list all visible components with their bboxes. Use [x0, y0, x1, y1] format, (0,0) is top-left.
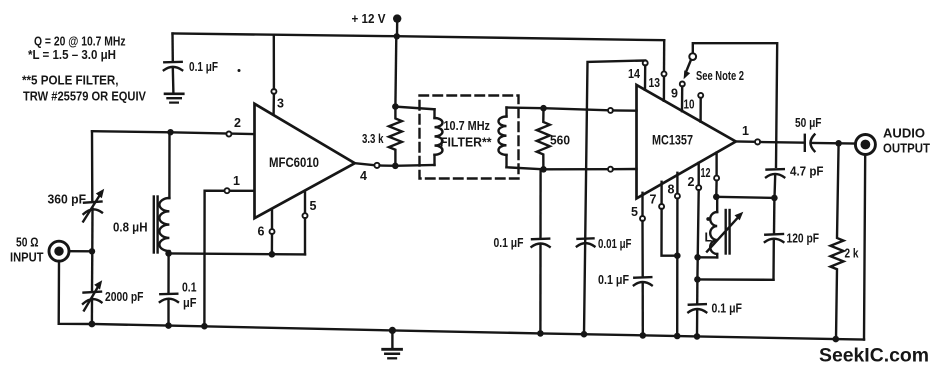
junction 2000pF/ground rail	[89, 321, 96, 328]
svg-text:0.1 μF: 0.1 μF	[712, 302, 743, 316]
wire input to junction	[69, 250, 92, 253]
inductor L variable	[710, 197, 717, 258]
label 0.8uH	[113, 221, 148, 235]
pin 7 stub MC1357	[659, 182, 677, 256]
label 50 ohm INPUT	[10, 236, 44, 265]
capacitor C 0.1uF decoupling (left)	[164, 34, 182, 94]
svg-text:0.1: 0.1	[182, 281, 197, 295]
svg-text:FILTER**: FILTER**	[440, 136, 492, 150]
svg-text:2 k: 2 k	[845, 247, 859, 261]
svg-text:INPUT: INPUT	[10, 251, 44, 265]
capacitor 0.01uF (pin14 net)	[577, 238, 595, 246]
pin number 3 MFC6010	[277, 97, 284, 111]
note Q/L values	[28, 34, 126, 63]
label 4.7pF	[790, 165, 824, 179]
label MC1357	[652, 133, 693, 148]
label 0.1uF pin5	[598, 273, 629, 287]
svg-text:8: 8	[668, 183, 675, 197]
svg-text:MFC6010: MFC6010	[269, 155, 319, 170]
label 0.01uF	[598, 237, 632, 251]
speck	[238, 69, 241, 72]
pin number 6 MFC6010	[258, 225, 265, 239]
svg-text:3: 3	[277, 97, 284, 111]
inductor 0.8uH	[159, 132, 169, 253]
svg-text:+ 12 V: + 12 V	[352, 12, 387, 26]
svg-text:1: 1	[233, 174, 240, 188]
pin 1 circle MFC6010	[225, 188, 230, 193]
pin 2 stub MC1357	[696, 163, 701, 280]
pin number 12 MC1357	[701, 166, 711, 180]
capacitor 0.1uF (pin2 net)	[688, 279, 706, 336]
svg-text:SeekIC.com: SeekIC.com	[819, 345, 929, 367]
junction pin12/tank top	[713, 194, 720, 201]
junction 0.01uF/ground rail	[581, 331, 588, 338]
junction pin7/pin8	[674, 252, 681, 259]
svg-text:4: 4	[360, 169, 367, 183]
junction 0.1uF/ground rail	[165, 322, 172, 329]
pin 5 stub MFC6010	[303, 193, 308, 255]
svg-text:*L = 1.5 – 3.0 μH: *L = 1.5 – 3.0 μH	[28, 47, 116, 62]
wire pin14 loop	[584, 61, 645, 335]
pin 4 circle MFC6010	[374, 163, 395, 168]
svg-text:560: 560	[550, 134, 570, 148]
wire pin4 net to filter coil bottom	[395, 164, 434, 167]
node input top wire (pin2 net)	[92, 131, 252, 134]
junction 560 bottom	[540, 166, 547, 173]
junction 2k/ground rail	[833, 336, 840, 343]
svg-text:0.1 μF: 0.1 μF	[494, 236, 524, 250]
inductor filter left winding	[435, 109, 443, 165]
pin number 2 MFC6010	[234, 116, 241, 130]
label 0.1uF mid	[494, 236, 524, 250]
capacitor 0.1uF (pin5)	[634, 277, 652, 335]
ground symbol (left decoupling)	[165, 94, 183, 103]
pin number 2 MC1357	[688, 175, 695, 189]
input connector 50 ohm	[49, 241, 69, 261]
svg-text:0.8 μH: 0.8 μH	[113, 221, 148, 235]
arrow see note 2	[684, 61, 691, 80]
wire tank top rail	[716, 197, 774, 198]
junction +12V rail/stub	[394, 33, 400, 39]
capacitor 0.1uF (mid, 560 net)	[532, 169, 550, 333]
watermark SeekIC.com	[819, 345, 929, 367]
ground symbol (bottom center)	[383, 327, 402, 359]
svg-text:3.3 k: 3.3 k	[362, 132, 384, 146]
wire pin1 loop	[204, 191, 252, 326]
wire filter bottom to 560/pin6	[507, 167, 609, 169]
junction pin2 cap/ground rail	[694, 333, 701, 340]
+12V terminal dot	[393, 14, 401, 36]
svg-text:1: 1	[742, 124, 749, 138]
junction 2k top	[835, 140, 842, 147]
pin 9 circle MC1357	[680, 82, 685, 112]
filter dashed box	[420, 96, 519, 179]
pin number 1 MC1357	[742, 124, 749, 138]
label 0.1uF input side	[182, 281, 197, 311]
wire input shield down	[59, 261, 92, 324]
svg-text:360 pF: 360 pF	[48, 193, 87, 207]
svg-text:TRW #25579 OR EQUIV: TRW #25579 OR EQUIV	[23, 89, 146, 104]
resistor 3.3k	[389, 107, 402, 166]
svg-text:14: 14	[628, 67, 640, 81]
svg-text:5: 5	[310, 199, 317, 213]
inductor filter right winding	[499, 108, 507, 168]
op-amp U1 MFC6010	[255, 104, 355, 218]
junction L bottom/pin2	[694, 254, 701, 261]
junction 3.3k bottom / pin4 net	[392, 163, 399, 170]
svg-text:2000 pF: 2000 pF	[105, 290, 144, 304]
svg-text:4.7 pF: 4.7 pF	[790, 165, 824, 179]
arrow 2000pF	[84, 280, 102, 310]
capacitor 0.1uF (input side)	[160, 253, 178, 325]
label 0.1uF pin2	[712, 302, 743, 316]
wire L bottom to pin2 line	[698, 256, 718, 259]
capacitor 2000pF variable	[83, 251, 102, 324]
svg-text:13: 13	[649, 76, 661, 90]
wire +12V rail to pin 13	[663, 40, 666, 71]
pin number 5 MC1357	[631, 205, 638, 219]
wire filter top to 560/pin4	[507, 108, 609, 111]
arrow 360pF	[83, 189, 104, 222]
pin 4 circle MC1357	[608, 108, 637, 113]
wire 3.3k top to filter coil	[395, 107, 434, 110]
core lines 0.8uH	[154, 197, 158, 253]
wire pin3 stub from rail	[273, 35, 276, 89]
svg-text:0.1 μF: 0.1 μF	[598, 273, 629, 287]
wire pins 5/6 bottom net	[169, 253, 305, 254]
label 560	[550, 134, 570, 148]
wire pin 1 output MC1357	[736, 140, 755, 143]
junction 4.7pF/tank top	[771, 195, 778, 202]
+12V supply rail	[173, 34, 665, 41]
label See Note 2	[696, 69, 744, 83]
svg-text:50 Ω: 50 Ω	[16, 236, 39, 250]
capacitor 120pF	[765, 198, 784, 280]
svg-text:L: L	[705, 231, 713, 245]
junction 560 top	[540, 105, 547, 112]
pin 1 circle MC1357	[755, 139, 805, 144]
pin 13 circle MC1357	[662, 71, 667, 100]
label 120pF	[787, 232, 820, 246]
pin number 4 MFC6010	[360, 169, 367, 183]
pin 6 stub MFC6010	[270, 209, 275, 255]
svg-text:**5 POLE FILTER,: **5 POLE FILTER,	[22, 73, 119, 88]
junction 3.3k top	[392, 103, 399, 110]
svg-text:9: 9	[671, 87, 678, 101]
svg-text:50 μF: 50 μF	[795, 116, 822, 130]
label 10.7 MHz FILTER	[440, 119, 492, 150]
wire +12V down to 3.3k top	[394, 36, 397, 106]
junction coil bottom	[165, 250, 172, 257]
wire pin 4 output MFC6010	[355, 163, 375, 165]
pin 12 stub MC1357	[714, 153, 719, 197]
see note 2 terminal circle	[689, 53, 696, 60]
junction mid cap/ground rail	[537, 330, 544, 337]
svg-text:AUDIO: AUDIO	[883, 127, 925, 141]
ground rail bottom	[92, 324, 864, 340]
svg-text:MC1357: MC1357	[652, 133, 693, 148]
pin 3 circle MFC6010	[271, 89, 276, 115]
junction coil top	[167, 129, 173, 135]
resistor 2k	[831, 143, 844, 339]
pin number 10 MC1357	[684, 98, 695, 112]
svg-text:0.01 μF: 0.01 μF	[598, 237, 632, 251]
svg-text:120 pF: 120 pF	[787, 232, 820, 246]
junction tank bottom/pin2	[694, 276, 701, 283]
resistor 560	[537, 108, 550, 169]
note 5 pole filter	[22, 73, 146, 104]
pin 5 stub MC1357	[640, 193, 645, 277]
capacitor 4.7pF	[766, 169, 784, 198]
svg-text:μF: μF	[183, 296, 197, 310]
label AUDIO OUTPUT	[883, 127, 930, 156]
see note 2 loop wire	[693, 43, 777, 167]
junction pin6/bottom net	[269, 251, 276, 258]
junction pin1 net/ground rail	[201, 323, 208, 330]
svg-text:12: 12	[701, 166, 711, 180]
pin number 13 MC1357	[649, 76, 661, 90]
svg-text:See Note 2: See Note 2	[696, 69, 744, 83]
svg-text:OUTPUT: OUTPUT	[883, 142, 930, 156]
pin 14 circle MC1357	[643, 61, 648, 90]
svg-text:2: 2	[234, 116, 241, 130]
audio output connector	[855, 135, 875, 155]
pin 6 circle MC1357	[608, 167, 637, 172]
label L	[705, 231, 713, 245]
pin number 5 MFC6010	[310, 199, 317, 213]
pin 2 circle MFC6010	[226, 132, 231, 137]
pin 8 stub MC1357	[675, 173, 680, 336]
capacitor 50uF coupling	[805, 135, 856, 152]
pin number 8 MC1357	[668, 183, 675, 197]
asterisk dot L	[706, 217, 710, 221]
label 50uF	[795, 116, 822, 130]
pin number 7 MC1357	[650, 193, 657, 207]
label 3.3k	[362, 132, 384, 146]
arrow L variable	[707, 212, 743, 252]
svg-text:10.7 MHz: 10.7 MHz	[444, 119, 491, 133]
svg-text:10: 10	[684, 98, 695, 112]
junction pin8/ground rail	[674, 333, 681, 340]
svg-text:2: 2	[688, 175, 695, 189]
junction input node	[89, 248, 95, 254]
pin number 9 MC1357	[671, 87, 678, 101]
wire tank bottom rail	[697, 278, 773, 281]
label MFC6010	[269, 155, 319, 170]
junction pin5/ground rail	[640, 332, 647, 339]
label 2k	[845, 247, 859, 261]
svg-text:6: 6	[258, 225, 265, 239]
svg-text:7: 7	[650, 193, 657, 207]
amplifier U2 MC1357	[637, 85, 736, 198]
label +12V	[352, 12, 387, 26]
svg-text:0.1 μF: 0.1 μF	[189, 60, 218, 74]
pin 10 circle MC1357	[698, 93, 703, 122]
capacitor 360pF variable	[84, 131, 103, 248]
svg-text:5: 5	[631, 205, 638, 219]
pin number 14 MC1357	[628, 67, 640, 81]
pin number 1 MFC6010	[233, 174, 240, 188]
core lines L	[726, 210, 730, 254]
label 360pF	[48, 193, 87, 207]
label 2000pF	[105, 290, 144, 304]
wire audio shield down	[864, 155, 865, 340]
label 0.1uF decoupling	[189, 60, 218, 74]
